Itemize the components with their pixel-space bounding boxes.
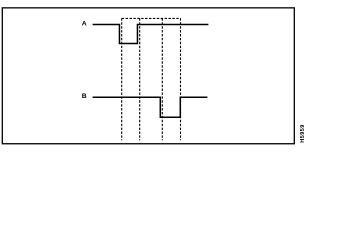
border frame	[2, 8, 294, 144]
svg-text:H5959: H5959	[300, 124, 306, 142]
wire dashed vertical t2	[139, 18, 141, 140]
wire dashed top reference line	[122, 17, 181, 19]
wire signal A trace	[93, 24, 209, 43]
svg-text:B: B	[82, 93, 87, 100]
svg-text:A: A	[82, 20, 87, 27]
wire dashed vertical t4	[180, 18, 182, 140]
wire signal B trace	[93, 97, 208, 117]
wire dashed vertical t3	[161, 18, 163, 140]
wire dashed vertical t1	[121, 18, 123, 140]
